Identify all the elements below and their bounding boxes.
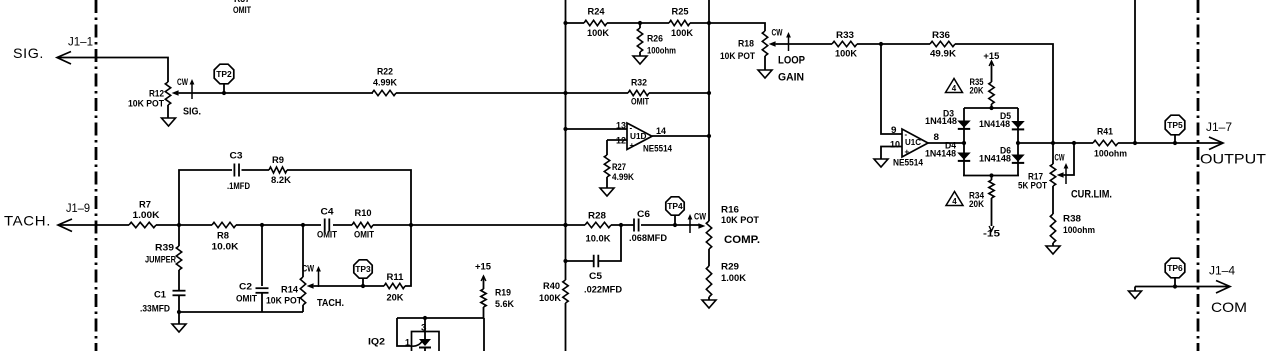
testpoint TP3 [354, 260, 372, 286]
potentiometer R16 10K POT [698, 205, 760, 267]
svg-text:1N4148: 1N4148 [979, 119, 1010, 130]
svg-text:100ohm: 100ohm [1094, 149, 1127, 160]
diode D3 1N4148 [925, 108, 971, 143]
wire right vertical net [707, 0, 711, 221]
node TACH J1-9 [4, 203, 90, 229]
svg-text:.022MFD: .022MFD [584, 285, 622, 296]
wire TACH main line [156, 223, 321, 227]
right connector boundary (dash-dot) [1197, 0, 1200, 351]
svg-text:CW: CW [694, 212, 706, 222]
svg-text:OMIT: OMIT [631, 97, 649, 108]
svg-text:10.0K: 10.0K [212, 242, 239, 253]
wire vertical to top at output [1134, 0, 1136, 143]
svg-text:OMIT: OMIT [354, 230, 374, 241]
ground below R38 [1046, 246, 1060, 254]
diode D6 1N4148 [979, 143, 1025, 176]
resistor R37 label (clipped at top) [233, 0, 251, 16]
svg-text:U1C: U1C [905, 137, 921, 147]
svg-text:-15: -15 [983, 229, 1001, 240]
ground below R12 [162, 118, 176, 126]
svg-text:R41: R41 [1097, 127, 1114, 138]
svg-text:TACH.: TACH. [317, 297, 344, 309]
resistor R41 100ohm [1093, 127, 1127, 160]
svg-text:SIG.: SIG. [13, 45, 44, 61]
wire R24 to R25 [607, 21, 669, 25]
wire bottom return [179, 311, 303, 313]
svg-text:10.0K: 10.0K [586, 234, 611, 245]
resistor R40 100K [539, 280, 568, 304]
svg-text:-: - [630, 124, 633, 133]
resistor R24 100K [566, 7, 610, 40]
svg-text:+: + [905, 148, 910, 157]
svg-text:NE5514: NE5514 [893, 158, 924, 169]
arrow TACH test direction [316, 266, 344, 309]
wire pin 13 input [566, 121, 628, 132]
diode D5 1N4148 [979, 108, 1025, 143]
wire center vertical net [563, 0, 567, 280]
svg-text:R10: R10 [355, 208, 372, 219]
svg-text:R22: R22 [377, 67, 393, 78]
resistor R38 100ohm [1050, 186, 1095, 246]
svg-text:10K POT: 10K POT [266, 296, 302, 307]
resistor R7 1.00K [129, 200, 160, 228]
op-amp U1D NE5514 [627, 123, 673, 155]
wire R41 to output arrow [1118, 137, 1223, 150]
svg-text:J1–4: J1–4 [1209, 266, 1236, 278]
arrow CUR.LIM direction [1064, 163, 1112, 201]
svg-text:49.9K: 49.9K [930, 49, 956, 60]
wire R33 to R36 [857, 42, 930, 46]
wire R18 wiper to R33 [776, 43, 832, 45]
svg-text:R9: R9 [272, 155, 284, 166]
potentiometer R17 5K POT [1018, 153, 1065, 192]
svg-text:TP3: TP3 [355, 265, 371, 274]
svg-text:20K: 20K [970, 86, 984, 97]
svg-text:TACH.: TACH. [4, 213, 51, 229]
capacitor C3 .1MFD [227, 151, 250, 193]
capacitor C1 .33MFD [140, 290, 186, 315]
svg-text:TP5: TP5 [1167, 121, 1183, 130]
svg-text:COM: COM [1211, 299, 1247, 315]
resistor R33 100K [832, 30, 857, 60]
svg-text:C3: C3 [230, 151, 243, 162]
svg-text:20K: 20K [387, 293, 404, 304]
svg-text:100ohm: 100ohm [1063, 225, 1095, 236]
wire R22 to R32 node [396, 91, 628, 95]
left connector boundary (dash-dot) [95, 0, 98, 351]
wire pin 14 output [652, 126, 709, 137]
wire R11 to feedback node [405, 225, 411, 286]
svg-text:R24: R24 [588, 7, 606, 18]
potentiometer R18 10K POT [709, 23, 783, 70]
ground below R27 [600, 188, 614, 196]
wire R28 to C6 [611, 223, 634, 227]
svg-text:8: 8 [934, 132, 940, 143]
flag note 4 at R35 [946, 79, 963, 94]
resistor R10 OMIT [352, 208, 374, 241]
svg-text:GAIN: GAIN [778, 72, 804, 84]
wire pin 8 output [928, 132, 966, 145]
svg-text:C6: C6 [637, 209, 650, 220]
svg-text:R25: R25 [672, 7, 690, 18]
svg-text:OMIT: OMIT [233, 5, 251, 16]
svg-text:R18: R18 [738, 39, 754, 50]
svg-text:R40: R40 [543, 281, 560, 292]
resistor R19 5.6K to +15 [475, 262, 514, 319]
ground at pin 10 [874, 159, 888, 167]
op-amp U1C NE5514 [893, 129, 928, 169]
svg-text:1N4148: 1N4148 [925, 149, 956, 160]
svg-text:5.6K: 5.6K [495, 299, 514, 310]
svg-text:JUMPER: JUMPER [145, 255, 176, 266]
resistor R32 OMIT [628, 78, 649, 108]
wire R32 to right bus [649, 91, 711, 95]
svg-text:R39: R39 [155, 243, 174, 254]
capacitor C2 OMIT [236, 225, 269, 312]
svg-text:R7: R7 [139, 200, 151, 211]
svg-text:10: 10 [890, 140, 900, 151]
wire C4 to R10 [333, 224, 352, 226]
resistor R9 8.2K [269, 155, 291, 186]
resistor R35 20K to +15 [970, 51, 1001, 108]
potentiometer R14 10K POT [266, 225, 314, 312]
node COM J1-4 [1209, 266, 1247, 316]
svg-text:J1–7: J1–7 [1206, 122, 1232, 134]
wire pin 12 input [607, 136, 627, 147]
svg-text:+: + [630, 141, 635, 150]
svg-text:10K POT: 10K POT [721, 215, 759, 226]
svg-text:100K: 100K [539, 293, 561, 304]
wire R10 to R28 [373, 223, 585, 227]
svg-text:100K: 100K [671, 28, 693, 39]
resistor R11 20K [384, 272, 405, 304]
svg-text:R33: R33 [836, 30, 854, 41]
svg-text:R19: R19 [495, 288, 511, 299]
transistor IQ2 [368, 318, 439, 356]
arrow LOOP GAIN direction [778, 32, 805, 84]
wire R14 wiper to R11 [314, 284, 384, 288]
svg-text:TP6: TP6 [1167, 264, 1183, 273]
svg-text:TP2: TP2 [216, 70, 232, 79]
wire TACH input [58, 219, 129, 232]
svg-text:OMIT: OMIT [236, 294, 257, 305]
svg-text:SIG.: SIG. [183, 106, 201, 118]
svg-text:+15: +15 [983, 51, 1000, 62]
svg-text:1: 1 [405, 338, 411, 349]
wire pin 10 input [881, 140, 902, 160]
ground below R26 [633, 56, 647, 64]
testpoint TP2 [214, 64, 234, 95]
wire R17 wiper to output [1064, 143, 1074, 175]
node SIG J1-1 [13, 37, 93, 62]
svg-text:100K: 100K [835, 49, 857, 60]
svg-text:OUTPUT: OUTPUT [1200, 151, 1267, 167]
svg-text:CW: CW [1055, 153, 1065, 163]
svg-text:R32: R32 [631, 78, 647, 89]
resistor R39 JUMPER [145, 225, 182, 290]
svg-text:J1–9: J1–9 [66, 203, 90, 215]
svg-text:R36: R36 [932, 30, 950, 41]
svg-text:.1MFD: .1MFD [227, 181, 250, 192]
capacitor C4 OMIT [317, 207, 337, 241]
testpoint TP4 [666, 197, 684, 225]
node OUTPUT J1-7 [1200, 122, 1267, 167]
wire COM net [1135, 281, 1230, 294]
svg-text:R26: R26 [647, 34, 663, 45]
svg-text:J1–1: J1–1 [68, 37, 93, 49]
svg-text:.068MFD: .068MFD [629, 233, 667, 244]
testpoint TP6 [1165, 258, 1185, 286]
potentiometer R12 10K POT [128, 77, 188, 118]
svg-text:14: 14 [656, 126, 667, 137]
svg-text:R11: R11 [387, 272, 405, 283]
wire pin 9 input [881, 44, 902, 136]
wire output net [1016, 141, 1093, 145]
svg-text:13: 13 [616, 121, 626, 132]
svg-text:C1: C1 [154, 290, 167, 301]
svg-text:+15: +15 [475, 262, 492, 273]
resistor R22 4.99K [372, 67, 397, 96]
wire R12 wiper to SIG net [179, 92, 373, 94]
svg-text:CW: CW [772, 28, 783, 38]
svg-text:CUR.LIM.: CUR.LIM. [1071, 189, 1112, 201]
svg-text:10K POT: 10K POT [128, 99, 164, 110]
svg-text:-: - [905, 130, 908, 139]
svg-text:COMP.: COMP. [724, 234, 760, 246]
svg-text:CW: CW [302, 264, 314, 274]
wire R25 to right bus [690, 21, 711, 25]
svg-text:100ohm: 100ohm [647, 46, 676, 57]
resistor R26 100ohm [637, 23, 676, 57]
svg-text:C4: C4 [321, 207, 335, 218]
wire R40 to bottom edge [565, 303, 567, 351]
ground below R18 [758, 70, 772, 78]
resistor R28 10.0K [585, 211, 611, 245]
arrow SIG test direction [183, 79, 201, 118]
svg-text:TP4: TP4 [667, 202, 683, 211]
svg-text:4.99K: 4.99K [612, 172, 634, 183]
svg-text:100K: 100K [587, 28, 609, 39]
wire C6 to R16 wiper [641, 223, 699, 227]
svg-text:9: 9 [891, 125, 897, 136]
resistor R27 4.99K [604, 140, 634, 188]
resistor R8 10.0K [212, 222, 239, 252]
svg-text:OMIT: OMIT [317, 230, 337, 241]
svg-text:4.99K: 4.99K [373, 78, 397, 89]
arrow COMP direction [688, 212, 707, 234]
svg-text:1.00K: 1.00K [721, 273, 746, 284]
svg-text:8.2K: 8.2K [271, 175, 291, 186]
wire feedback loop top [179, 170, 411, 225]
svg-text:LOOP: LOOP [778, 55, 805, 67]
ground at COM [1129, 287, 1142, 299]
svg-text:3: 3 [421, 323, 427, 334]
ground below C1 [172, 312, 186, 332]
wire IQ2 collector line [397, 316, 484, 351]
resistor R25 100K [669, 7, 693, 40]
capacitor C5 .022MFD [566, 225, 623, 296]
svg-text:1N4148: 1N4148 [925, 116, 957, 127]
svg-text:R28: R28 [588, 211, 606, 222]
wire SIG input [57, 52, 168, 83]
svg-text:R38: R38 [1063, 214, 1081, 225]
svg-text:R29: R29 [721, 262, 739, 273]
svg-text:C5: C5 [589, 271, 603, 282]
svg-text:R16: R16 [721, 205, 739, 216]
resistor R34 20K to -15 [969, 176, 1001, 240]
svg-text:CW: CW [177, 77, 188, 87]
wire clamp bottom rail [963, 173, 1019, 177]
svg-text:U1D: U1D [630, 131, 647, 141]
resistor R29 1.00K [706, 262, 746, 301]
svg-text:4: 4 [952, 197, 957, 206]
flag note 4 at R34 [946, 192, 963, 207]
diode D4 1N4148 [925, 141, 971, 176]
capacitor C6 .068MFD [629, 209, 667, 244]
svg-text:1.00K: 1.00K [133, 210, 160, 221]
svg-text:.33MFD: .33MFD [140, 304, 170, 315]
ground below R29 [702, 300, 716, 308]
svg-text:4: 4 [952, 84, 957, 93]
svg-text:R8: R8 [217, 231, 229, 242]
svg-text:NE5514: NE5514 [643, 144, 673, 155]
svg-text:5K POT: 5K POT [1018, 181, 1047, 192]
testpoint TP5 [1165, 115, 1185, 143]
svg-text:IQ2: IQ2 [368, 337, 385, 348]
svg-text:R14: R14 [281, 285, 299, 296]
svg-text:10K POT: 10K POT [720, 51, 755, 62]
svg-text:1N4148: 1N4148 [979, 154, 1011, 165]
resistor R36 49.9K [930, 30, 956, 60]
svg-text:12: 12 [616, 136, 626, 147]
svg-text:C2: C2 [239, 282, 252, 293]
wire R36 to output node [955, 44, 1053, 164]
wire clamp top rail [964, 106, 1018, 110]
svg-text:20K: 20K [969, 199, 984, 210]
